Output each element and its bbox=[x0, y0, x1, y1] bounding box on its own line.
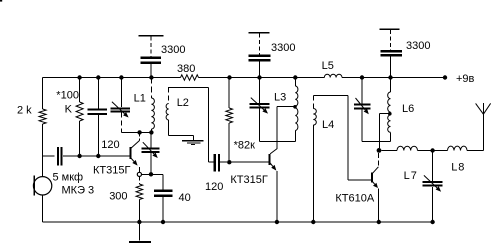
svg-text:L8: L8 bbox=[451, 162, 465, 174]
svg-text:300: 300 bbox=[109, 190, 127, 202]
svg-text:3300: 3300 bbox=[271, 42, 295, 54]
svg-text:*100: *100 bbox=[56, 89, 79, 101]
svg-text:120: 120 bbox=[205, 181, 223, 193]
svg-text:*82к: *82к bbox=[234, 139, 256, 151]
svg-text:L1: L1 bbox=[134, 93, 146, 105]
svg-text:380: 380 bbox=[177, 63, 195, 75]
svg-text:L2: L2 bbox=[177, 97, 189, 109]
svg-text:L4: L4 bbox=[322, 119, 334, 131]
svg-text:120: 120 bbox=[101, 139, 119, 151]
svg-text:L3: L3 bbox=[274, 92, 286, 104]
svg-text:КТ610А: КТ610А bbox=[335, 193, 374, 205]
svg-text:K: K bbox=[65, 104, 73, 116]
svg-text:КТ315Г: КТ315Г bbox=[93, 165, 130, 177]
svg-text:5 мкф: 5 мкф bbox=[53, 172, 84, 184]
svg-text:2 k: 2 k bbox=[17, 105, 32, 117]
svg-text:МКЭ 3: МКЭ 3 bbox=[62, 185, 95, 197]
svg-text:+9в: +9в bbox=[456, 73, 475, 85]
svg-text:3300: 3300 bbox=[406, 40, 430, 52]
svg-text:L6: L6 bbox=[402, 103, 414, 115]
svg-text:КТ315Г: КТ315Г bbox=[230, 174, 267, 186]
svg-text:3300: 3300 bbox=[161, 44, 185, 56]
svg-text:L7: L7 bbox=[404, 170, 418, 182]
svg-text:L5: L5 bbox=[322, 60, 334, 72]
svg-text:40: 40 bbox=[179, 192, 191, 204]
